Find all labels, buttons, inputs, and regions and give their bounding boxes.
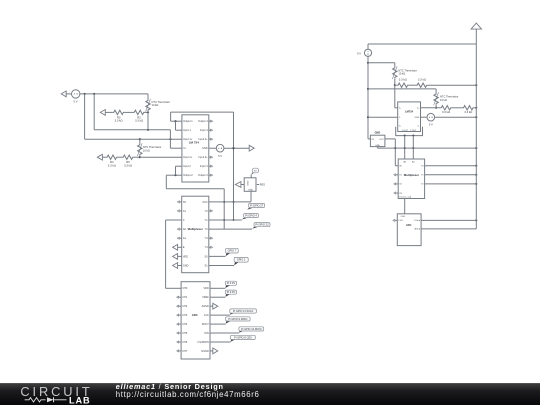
junction bbox=[139, 138, 141, 140]
svg-text:Input 4+: Input 4+ bbox=[198, 138, 208, 141]
thermistor RT3 bbox=[392, 66, 397, 79]
svg-text:3.3 kΩ: 3.3 kΩ bbox=[418, 77, 426, 81]
svg-text:Input 4: Input 4 bbox=[200, 129, 208, 132]
wire bbox=[209, 147, 217, 149]
svg-text:Pi GPIO 10 MOSI: Pi GPIO 10 MOSI bbox=[241, 327, 262, 331]
svg-text:ADC: ADC bbox=[406, 224, 412, 227]
junction bbox=[367, 116, 369, 118]
resistor R6 bbox=[397, 77, 409, 87]
svg-text:Pi GPIO 9 MISO: Pi GPIO 9 MISO bbox=[228, 317, 247, 321]
wire bbox=[394, 85, 396, 108]
wire chain2 bbox=[421, 107, 441, 109]
svg-text:GND: GND bbox=[375, 132, 381, 135]
svg-text:Output 2: Output 2 bbox=[183, 174, 193, 177]
wire U5 out2 bbox=[412, 136, 414, 159]
svg-text:GND: GND bbox=[247, 180, 249, 185]
svg-text:Output 1: Output 1 bbox=[183, 120, 193, 123]
wire bbox=[367, 44, 369, 49]
svg-text:DIN: DIN bbox=[204, 332, 209, 335]
wire bbox=[93, 94, 95, 130]
svg-text:Pi GPIO 4: Pi GPIO 4 bbox=[245, 213, 257, 217]
wire bbox=[421, 219, 476, 221]
wire bbox=[210, 323, 226, 325]
svg-text:CH6: CH6 bbox=[182, 341, 188, 344]
net flag GND (left arrow) bbox=[173, 254, 182, 260]
ADC U4 bbox=[181, 282, 210, 359]
wire Input1+ net bbox=[85, 138, 182, 140]
svg-text:OUT: OUT bbox=[379, 139, 384, 141]
svg-text:VDD: VDD bbox=[204, 287, 209, 290]
junction bbox=[394, 147, 396, 149]
svg-text:VREF: VREF bbox=[202, 296, 209, 299]
wire bbox=[209, 228, 252, 230]
svg-text:Pi GPIO 8 CE0: Pi GPIO 8 CE0 bbox=[234, 335, 252, 339]
svg-text:3.3 kΩ: 3.3 kΩ bbox=[442, 110, 450, 114]
flag Pi GPIO 11 SCLK bbox=[230, 309, 257, 315]
resistor R9 bbox=[462, 106, 474, 114]
wire top rail bbox=[80, 93, 148, 95]
wire rail bbox=[378, 147, 477, 149]
wire bbox=[395, 165, 398, 167]
wire bbox=[210, 341, 231, 343]
svg-text:CH1: CH1 bbox=[398, 220, 403, 222]
wire bbox=[368, 138, 370, 140]
resistor R8 bbox=[440, 106, 452, 114]
flag Pi 3.3V bbox=[225, 281, 236, 288]
wire bbox=[368, 88, 436, 90]
svg-text:1-: 1- bbox=[399, 117, 401, 119]
multiplexer U7 bbox=[398, 159, 424, 199]
svg-text:Output 4: Output 4 bbox=[198, 120, 208, 123]
svg-text:CH0: CH0 bbox=[182, 287, 188, 290]
net flag (left arrow) bbox=[97, 154, 102, 160]
wire bbox=[210, 287, 225, 289]
U8 left pin stub bbox=[393, 219, 397, 221]
wire bbox=[434, 116, 476, 118]
svg-text:S (Out+ out): S (Out+ out) bbox=[399, 196, 411, 199]
svg-text:VCC: VCC bbox=[202, 201, 207, 204]
flag Pi 3.3V bbox=[225, 290, 236, 297]
voltage source V1 5V bbox=[72, 90, 80, 104]
junction bbox=[147, 111, 149, 113]
net flag GND (left arrow) bbox=[235, 182, 241, 188]
svg-text:DGND: DGND bbox=[201, 350, 209, 353]
junction bbox=[169, 138, 171, 140]
junction bbox=[84, 93, 86, 95]
thermistor RT1 label bbox=[152, 100, 171, 107]
svg-text:CH0: CH0 bbox=[401, 216, 406, 218]
svg-text:CH2: CH2 bbox=[182, 305, 188, 308]
svg-text:GND: GND bbox=[375, 145, 380, 147]
wire bbox=[165, 220, 167, 288]
wire right vertical bbox=[475, 44, 477, 229]
wire bbox=[209, 265, 234, 267]
wire bbox=[394, 139, 396, 166]
wire mux2 to adc2 bbox=[404, 199, 406, 214]
junction bbox=[475, 107, 477, 109]
svg-text:3.3 kΩ: 3.3 kΩ bbox=[399, 77, 407, 81]
wire V+ net bbox=[170, 147, 182, 149]
module U3 (XBee) bbox=[244, 178, 256, 192]
resistor R7 bbox=[416, 77, 428, 87]
junction bbox=[147, 129, 149, 131]
thermistor RT3 label bbox=[398, 68, 417, 75]
junction bbox=[232, 147, 234, 149]
voltage source V2 5V bbox=[216, 144, 224, 158]
wire bbox=[165, 175, 167, 189]
svg-text:Pi 3.3V: Pi 3.3V bbox=[227, 290, 236, 294]
junction bbox=[475, 219, 477, 221]
svg-text:RES: RES bbox=[260, 183, 265, 186]
junction bbox=[223, 201, 225, 203]
junction bbox=[412, 147, 414, 149]
wire mux out bbox=[166, 219, 182, 221]
wire bbox=[210, 332, 239, 334]
junction bbox=[232, 201, 234, 203]
svg-text:Input 1: Input 1 bbox=[183, 129, 191, 132]
wire U5 out1 bbox=[404, 136, 406, 159]
svg-text:9 V: 9 V bbox=[357, 52, 361, 56]
wire 9V vertical bbox=[367, 56, 369, 138]
junction bbox=[174, 174, 176, 176]
flag GPIO 1 bbox=[234, 257, 248, 265]
logo CIRCUIT bbox=[20, 384, 92, 399]
flag Pi GPIO 10 MOSI bbox=[239, 327, 264, 333]
svg-text:CH5: CH5 bbox=[182, 332, 188, 335]
svg-text:GPIO 1: GPIO 1 bbox=[237, 258, 246, 262]
multiplexer U2 bbox=[182, 196, 209, 273]
wire bbox=[166, 174, 182, 176]
wire bbox=[435, 89, 437, 93]
svg-text:3.3 kΩ: 3.3 kΩ bbox=[135, 119, 143, 123]
wire bbox=[134, 156, 140, 158]
op-amp U5 LM724 bbox=[396, 102, 423, 137]
wire bbox=[175, 121, 177, 130]
wire bbox=[209, 219, 242, 221]
svg-text:3.3 kΩ: 3.3 kΩ bbox=[124, 163, 132, 167]
wire bbox=[421, 116, 428, 118]
flag 5V bubble bbox=[251, 168, 258, 174]
svg-text:Pi GPIO 11 SCLK: Pi GPIO 11 SCLK bbox=[233, 309, 254, 313]
footer url bbox=[116, 390, 260, 399]
junction bbox=[93, 93, 95, 95]
junction bbox=[475, 84, 477, 86]
wire bbox=[84, 94, 86, 139]
wire bbox=[395, 107, 398, 109]
junction bbox=[139, 156, 141, 158]
wire bbox=[166, 287, 182, 289]
svg-text:Multiplexer: Multiplexer bbox=[188, 227, 204, 231]
wire bbox=[125, 111, 133, 113]
svg-text:Input 2+: Input 2+ bbox=[183, 156, 193, 159]
wire bbox=[224, 147, 250, 149]
wire bbox=[209, 255, 226, 257]
svg-text:Input 1+: Input 1+ bbox=[183, 138, 193, 141]
svg-text:DGnd: DGnd bbox=[414, 220, 420, 222]
wire bbox=[368, 116, 398, 118]
thermistor RT2 label bbox=[143, 145, 162, 152]
net flag (right arrow) bbox=[249, 145, 254, 151]
wire bbox=[210, 314, 230, 316]
footer bar bbox=[0, 383, 540, 405]
wire bbox=[394, 79, 396, 85]
thermistor RT2 lead bbox=[139, 139, 141, 143]
svg-text:GND: GND bbox=[183, 264, 189, 267]
svg-text:GND: GND bbox=[202, 147, 208, 150]
svg-text:3.3 kΩ: 3.3 kΩ bbox=[108, 163, 116, 167]
U4 left pin stubs bbox=[177, 296, 181, 352]
wire bbox=[223, 189, 225, 229]
net flag up arrow bbox=[471, 23, 481, 29]
svg-text:DOUT: DOUT bbox=[202, 323, 210, 326]
wire bbox=[66, 93, 72, 95]
wire bbox=[425, 183, 477, 185]
junction bbox=[367, 88, 369, 90]
wire bbox=[452, 107, 462, 109]
flag Pi GPIO 4 bbox=[242, 213, 259, 219]
net flag IN1 (left arrow) bbox=[61, 91, 66, 97]
junction bbox=[435, 107, 437, 109]
wire bbox=[105, 111, 112, 113]
svg-text:CH3: CH3 bbox=[182, 314, 188, 317]
wire bbox=[368, 62, 395, 64]
svg-text:2 OUT: 2 OUT bbox=[410, 130, 417, 132]
thermistor RT2 bbox=[137, 143, 142, 156]
svg-text:10 kΩ: 10 kΩ bbox=[440, 98, 447, 102]
wire feedback top bbox=[171, 111, 234, 113]
wire bbox=[385, 138, 395, 140]
flag Pi GPIO 8 CE0 bbox=[231, 335, 256, 341]
svg-text:AGnd: AGnd bbox=[415, 228, 421, 231]
wire bbox=[147, 112, 149, 129]
junction bbox=[475, 147, 477, 149]
wire bbox=[250, 192, 252, 202]
wire bbox=[176, 165, 182, 167]
net flag DGND (right arrow) bbox=[210, 348, 218, 354]
svg-text:V+: V+ bbox=[183, 147, 187, 150]
thermistor RT1 lead bbox=[147, 111, 149, 112]
svg-text:ADC: ADC bbox=[192, 313, 198, 317]
U2 pin stub bbox=[209, 237, 213, 239]
svg-text:CH7: CH7 bbox=[182, 350, 188, 353]
junction bbox=[174, 120, 176, 122]
resistor R4 bbox=[106, 155, 118, 167]
ADC U8 bbox=[397, 214, 421, 246]
svg-text:10 kΩ: 10 kΩ bbox=[398, 72, 405, 76]
thermistor RT4 bbox=[434, 92, 439, 105]
svg-text:Pi 3.3V: Pi 3.3V bbox=[227, 281, 236, 285]
svg-text:Output 3: Output 3 bbox=[198, 174, 208, 177]
svg-text:Input 3+: Input 3+ bbox=[198, 156, 208, 159]
flag Pi GPIO 22 bbox=[252, 223, 270, 229]
wire bbox=[435, 105, 437, 108]
svg-text:10 kΩ: 10 kΩ bbox=[152, 103, 159, 107]
junction bbox=[232, 219, 234, 221]
svg-text:Multiplexer: Multiplexer bbox=[404, 173, 420, 177]
svg-text:CLK: CLK bbox=[204, 314, 209, 317]
wire bbox=[94, 129, 170, 131]
svg-text:10 kΩ: 10 kΩ bbox=[143, 148, 150, 152]
svg-text:9 V: 9 V bbox=[429, 123, 433, 127]
thermistor RT1 bbox=[146, 99, 151, 112]
svg-text:LM 724: LM 724 bbox=[189, 141, 200, 145]
wire bbox=[102, 156, 105, 158]
svg-text:CH1: CH1 bbox=[182, 296, 188, 299]
U6 label GND bbox=[375, 132, 381, 135]
wire bbox=[171, 120, 182, 122]
module U6 (XBee) bbox=[370, 135, 385, 147]
U7 left pin stubs bbox=[394, 174, 398, 194]
net flag GND (left arrow) bbox=[173, 263, 182, 269]
junction bbox=[475, 165, 477, 167]
wire bbox=[118, 156, 122, 158]
thermistor RT4 label bbox=[440, 95, 459, 102]
logo LAB bbox=[69, 396, 91, 405]
wire bbox=[425, 165, 477, 167]
net flag (left arrow) bbox=[100, 110, 105, 116]
svg-text:CH4: CH4 bbox=[182, 323, 188, 326]
junction bbox=[394, 84, 396, 86]
junction bbox=[475, 116, 477, 118]
net flag AGND (right arrow) bbox=[210, 303, 218, 309]
wire bbox=[169, 130, 171, 148]
U1 right pin stubs bbox=[209, 120, 213, 176]
thermistor RT2 lead bbox=[139, 156, 141, 157]
junction bbox=[404, 147, 406, 149]
op-amp U1 LM724 bbox=[182, 115, 209, 182]
svg-text:AGND: AGND bbox=[202, 305, 209, 308]
wire bbox=[474, 107, 476, 109]
logo schematic doodle bbox=[25, 397, 67, 402]
svg-text:2-: 2- bbox=[418, 126, 420, 128]
flag GPIO 7 bbox=[226, 248, 239, 256]
wire bbox=[176, 129, 182, 131]
svg-text:3.3 kΩ: 3.3 kΩ bbox=[464, 110, 472, 114]
net flag GND (left arrow) bbox=[173, 244, 182, 250]
svg-text:Pi GPIO 22: Pi GPIO 22 bbox=[255, 223, 269, 227]
wire bbox=[428, 84, 476, 86]
svg-text:GND: GND bbox=[415, 117, 420, 119]
wire bbox=[145, 111, 148, 113]
wire bbox=[475, 29, 477, 44]
junction bbox=[475, 174, 477, 176]
resistor R3 bbox=[113, 110, 125, 122]
wire bbox=[425, 174, 477, 176]
svg-text:CS/SHDN: CS/SHDN bbox=[198, 341, 209, 344]
wire bbox=[421, 228, 476, 230]
U2 pin stub bbox=[209, 210, 213, 212]
junction bbox=[232, 147, 234, 149]
U2 pin stub bbox=[209, 246, 213, 248]
svg-text:VEE: VEE bbox=[183, 255, 188, 258]
wire top rail bbox=[368, 43, 476, 45]
svg-text:1 OUT: 1 OUT bbox=[401, 130, 408, 132]
svg-text:LAB: LAB bbox=[69, 396, 91, 405]
wire right vertical bbox=[233, 112, 235, 220]
wire Input2+ net bbox=[140, 156, 182, 158]
flag Pi GPIO 27 bbox=[247, 203, 264, 209]
junction bbox=[367, 62, 369, 64]
junction bbox=[475, 183, 477, 185]
U3 right pin bbox=[257, 183, 265, 186]
svg-text:Input 2: Input 2 bbox=[183, 165, 191, 168]
footer title bbox=[116, 382, 224, 391]
svg-text:GPIO 7: GPIO 7 bbox=[228, 249, 237, 253]
svg-text:GND: GND bbox=[248, 189, 253, 191]
resistor R2 bbox=[133, 110, 145, 122]
wire bbox=[395, 84, 416, 86]
flag Pi GPIO 9 MISO bbox=[226, 317, 251, 324]
U2 left pin stubs bbox=[177, 201, 181, 240]
voltage source V3 9V bbox=[357, 49, 372, 56]
resistor R5 bbox=[122, 155, 134, 167]
wire bbox=[175, 166, 177, 175]
svg-text:5 V: 5 V bbox=[218, 154, 222, 158]
voltage source V4 9V bbox=[427, 113, 435, 126]
wire bbox=[170, 112, 172, 121]
svg-text:3.3 kΩ: 3.3 kΩ bbox=[115, 119, 123, 123]
svg-text:LM724: LM724 bbox=[405, 110, 414, 114]
wire bbox=[210, 296, 225, 298]
svg-text:5 V: 5 V bbox=[73, 100, 77, 104]
svg-text:Pi GPIO 27: Pi GPIO 27 bbox=[250, 203, 264, 207]
U3 left pin bbox=[241, 184, 244, 186]
svg-text:Input 3: Input 3 bbox=[200, 165, 208, 168]
wire bbox=[394, 63, 396, 67]
U3 top pin bbox=[250, 174, 252, 177]
wire bbox=[166, 188, 224, 190]
wire bbox=[209, 201, 251, 203]
thermistor RT1 lead bbox=[147, 94, 149, 99]
svg-text:http://circuitlab.com/cf6nje47: http://circuitlab.com/cf6nje47m66r6 bbox=[116, 390, 260, 399]
junction bbox=[223, 219, 225, 221]
